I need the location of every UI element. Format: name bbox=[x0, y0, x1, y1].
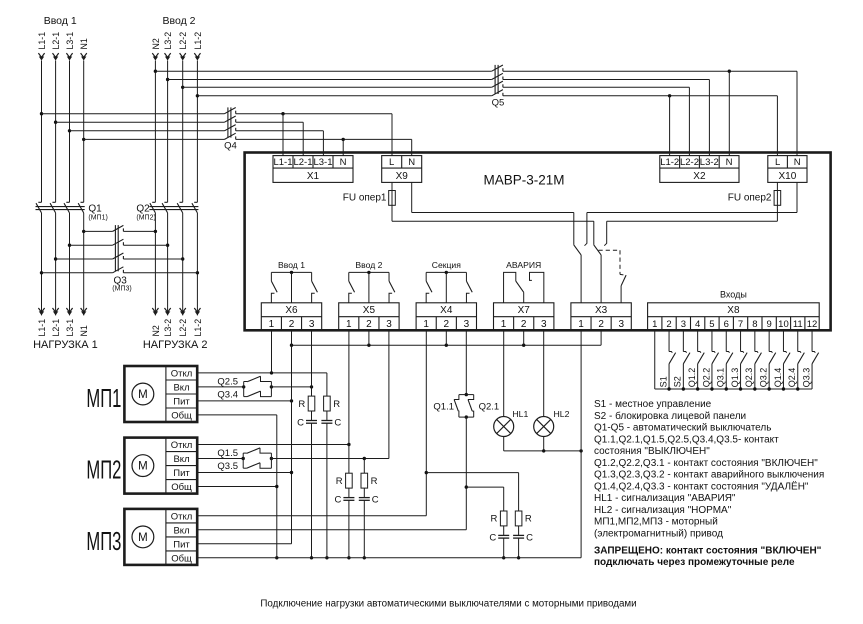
svg-text:N: N bbox=[340, 157, 347, 168]
svg-text:L3-1: L3-1 bbox=[65, 32, 75, 50]
svg-text:R: R bbox=[371, 476, 378, 487]
svg-text:Q1.2: Q1.2 bbox=[687, 368, 697, 388]
svg-text:S2: S2 bbox=[673, 376, 683, 387]
svg-text:Q3.4: Q3.4 bbox=[217, 390, 238, 401]
svg-text:C: C bbox=[526, 532, 533, 543]
svg-text:М: М bbox=[138, 461, 148, 473]
svg-text:FU опер1: FU опер1 bbox=[343, 193, 387, 204]
svg-text:МАВР-3-21М: МАВР-3-21М bbox=[483, 173, 564, 188]
svg-text:C: C bbox=[489, 532, 496, 543]
svg-text:R: R bbox=[491, 514, 498, 525]
svg-text:L2-1: L2-1 bbox=[51, 319, 61, 337]
svg-text:ЗАПРЕЩЕНО: контакт состояния ": ЗАПРЕЩЕНО: контакт состояния "ВКЛЮЧЕН" bbox=[594, 545, 822, 556]
svg-text:Входы: Входы bbox=[720, 289, 747, 299]
svg-text:C: C bbox=[335, 495, 342, 506]
svg-text:HL2 - сигнализация "НОРМА": HL2 - сигнализация "НОРМА" bbox=[594, 505, 732, 516]
svg-text:Q3.5: Q3.5 bbox=[217, 461, 238, 472]
svg-text:Q2.1: Q2.1 bbox=[479, 401, 500, 412]
svg-text:МП1: МП1 bbox=[86, 383, 121, 413]
svg-text:Секция: Секция bbox=[432, 260, 461, 270]
svg-text:N: N bbox=[794, 157, 801, 168]
svg-text:L3-2: L3-2 bbox=[700, 157, 719, 168]
svg-text:Пит: Пит bbox=[173, 468, 190, 479]
svg-text:Q1.1,Q2.1,Q1.5,Q2.5,Q3.4,Q3.5-: Q1.1,Q2.1,Q1.5,Q2.5,Q3.4,Q3.5- контакт bbox=[594, 434, 779, 445]
svg-text:состояния "ВЫКЛЮЧЕН": состояния "ВЫКЛЮЧЕН" bbox=[594, 446, 710, 457]
svg-text:X7: X7 bbox=[518, 305, 531, 316]
svg-text:1: 1 bbox=[578, 319, 584, 330]
svg-text:L3-1: L3-1 bbox=[65, 319, 75, 337]
svg-text:подключать через промежуточные: подключать через промежуточные реле bbox=[594, 557, 795, 568]
svg-text:HL1: HL1 bbox=[512, 409, 528, 419]
svg-text:N: N bbox=[408, 157, 415, 168]
svg-text:R: R bbox=[336, 476, 343, 487]
svg-text:12: 12 bbox=[807, 319, 818, 330]
svg-text:1: 1 bbox=[652, 319, 657, 330]
svg-text:3: 3 bbox=[386, 319, 392, 330]
svg-text:X2: X2 bbox=[693, 171, 706, 182]
svg-text:L1-1: L1-1 bbox=[37, 32, 47, 50]
svg-text:L3-2: L3-2 bbox=[163, 32, 173, 50]
svg-text:3: 3 bbox=[464, 319, 470, 330]
svg-text:Вкл: Вкл bbox=[173, 454, 189, 465]
svg-text:Ввод 2: Ввод 2 bbox=[163, 15, 196, 27]
svg-text:C: C bbox=[334, 417, 341, 428]
svg-text:HL2: HL2 bbox=[554, 409, 570, 419]
svg-text:НАГРУЗКА 1: НАГРУЗКА 1 bbox=[33, 339, 98, 351]
svg-text:X3: X3 bbox=[595, 305, 608, 316]
svg-text:Ввод 1: Ввод 1 bbox=[44, 15, 77, 27]
svg-text:Общ: Общ bbox=[171, 553, 192, 564]
svg-text:8: 8 bbox=[752, 319, 757, 330]
svg-text:X10: X10 bbox=[779, 171, 797, 182]
svg-text:2: 2 bbox=[444, 319, 450, 330]
svg-text:Общ: Общ bbox=[171, 482, 192, 493]
svg-text:X4: X4 bbox=[440, 305, 453, 316]
svg-text:М: М bbox=[138, 389, 148, 401]
svg-text:L: L bbox=[775, 157, 780, 168]
svg-text:Q1-Q5 - автоматический выключа: Q1-Q5 - автоматический выключатель bbox=[594, 423, 771, 434]
svg-text:N1: N1 bbox=[79, 38, 89, 49]
svg-text:Q2.4: Q2.4 bbox=[787, 368, 797, 388]
svg-text:6: 6 bbox=[724, 319, 729, 330]
svg-text:N2: N2 bbox=[151, 325, 161, 336]
svg-text:НАГРУЗКА 2: НАГРУЗКА 2 bbox=[143, 339, 208, 351]
svg-text:Ввод 1: Ввод 1 bbox=[278, 260, 305, 270]
svg-text:L1-2: L1-2 bbox=[660, 157, 679, 168]
svg-text:Откл: Откл bbox=[171, 368, 193, 379]
svg-text:Ввод 2: Ввод 2 bbox=[355, 260, 382, 270]
svg-text:L3-2: L3-2 bbox=[163, 319, 173, 337]
svg-text:3: 3 bbox=[681, 319, 686, 330]
svg-text:S1 - местное управление: S1 - местное управление bbox=[594, 399, 712, 410]
svg-text:Q1.4: Q1.4 bbox=[773, 368, 783, 388]
svg-text:Q3.2: Q3.2 bbox=[759, 368, 769, 388]
svg-text:3: 3 bbox=[618, 319, 624, 330]
svg-text:S1: S1 bbox=[658, 376, 668, 387]
svg-text:Откл: Откл bbox=[171, 440, 193, 451]
svg-text:1: 1 bbox=[346, 319, 352, 330]
svg-text:Q1.5: Q1.5 bbox=[217, 448, 238, 459]
svg-text:МП1,МП2,МП3 - моторный: МП1,МП2,МП3 - моторный bbox=[594, 517, 718, 528]
svg-text:МП2: МП2 bbox=[86, 455, 121, 485]
svg-text:7: 7 bbox=[738, 319, 743, 330]
svg-text:N2: N2 bbox=[151, 38, 161, 49]
svg-text:L2-1: L2-1 bbox=[51, 32, 61, 50]
svg-text:L1-1: L1-1 bbox=[273, 157, 292, 168]
svg-text:Подключение нагрузки автоматич: Подключение нагрузки автоматическими вык… bbox=[260, 599, 636, 610]
svg-text:1: 1 bbox=[269, 319, 275, 330]
svg-text:Q1.4,Q2.4,Q3.3 - контакт состо: Q1.4,Q2.4,Q3.3 - контакт состояния "УДАЛ… bbox=[594, 480, 809, 492]
svg-text:3: 3 bbox=[541, 319, 547, 330]
svg-text:FU опер2: FU опер2 bbox=[728, 193, 772, 204]
svg-text:Общ: Общ bbox=[171, 410, 192, 421]
svg-text:1: 1 bbox=[423, 319, 429, 330]
svg-text:N: N bbox=[726, 157, 733, 168]
svg-text:Q2.2: Q2.2 bbox=[701, 368, 711, 388]
svg-text:L1-1: L1-1 bbox=[37, 319, 47, 337]
svg-text:HL1 - сигнализация "АВАРИЯ": HL1 - сигнализация "АВАРИЯ" bbox=[594, 493, 736, 504]
svg-text:Q1.3: Q1.3 bbox=[730, 368, 740, 388]
svg-text:(МП1): (МП1) bbox=[88, 214, 107, 221]
svg-text:Q1.3,Q2.3,Q3.2 - контакт авари: Q1.3,Q2.3,Q3.2 - контакт аварийного выкл… bbox=[594, 470, 824, 481]
svg-text:2: 2 bbox=[521, 319, 527, 330]
svg-text:Q1.1: Q1.1 bbox=[433, 401, 454, 412]
svg-text:11: 11 bbox=[793, 319, 803, 330]
svg-text:R: R bbox=[298, 399, 305, 410]
svg-text:L3-1: L3-1 bbox=[313, 157, 332, 168]
svg-text:2: 2 bbox=[666, 319, 671, 330]
svg-text:R: R bbox=[333, 399, 340, 410]
svg-text:Q2.5: Q2.5 bbox=[217, 376, 238, 387]
svg-text:М: М bbox=[138, 532, 148, 544]
svg-text:L1-2: L1-2 bbox=[193, 32, 203, 50]
svg-text:Q3.3: Q3.3 bbox=[801, 368, 811, 388]
svg-text:3: 3 bbox=[309, 319, 315, 330]
svg-text:4: 4 bbox=[695, 319, 700, 330]
svg-text:Q5: Q5 bbox=[492, 98, 505, 109]
svg-text:(электромагнитный) привод: (электромагнитный) привод bbox=[594, 528, 723, 539]
svg-text:МП3: МП3 bbox=[86, 526, 121, 556]
svg-text:2: 2 bbox=[366, 319, 372, 330]
svg-text:X9: X9 bbox=[396, 171, 409, 182]
svg-text:АВАРИЯ: АВАРИЯ bbox=[506, 260, 541, 270]
svg-text:9: 9 bbox=[767, 319, 772, 330]
svg-text:10: 10 bbox=[778, 319, 789, 330]
svg-text:R: R bbox=[525, 514, 532, 525]
svg-text:X8: X8 bbox=[727, 305, 740, 316]
svg-text:(МП3): (МП3) bbox=[112, 286, 131, 293]
svg-text:Вкл: Вкл bbox=[173, 382, 189, 393]
svg-text:Q4: Q4 bbox=[224, 140, 237, 151]
svg-text:Q2.3: Q2.3 bbox=[744, 368, 754, 388]
svg-text:L2-2: L2-2 bbox=[178, 319, 188, 337]
svg-text:Q3.1: Q3.1 bbox=[716, 368, 726, 388]
svg-text:L2-2: L2-2 bbox=[178, 32, 188, 50]
svg-text:C: C bbox=[372, 495, 379, 506]
svg-text:2: 2 bbox=[598, 319, 604, 330]
svg-text:Q1.2,Q2.2,Q3.1 - контакт состо: Q1.2,Q2.2,Q3.1 - контакт состояния "ВКЛЮ… bbox=[594, 458, 818, 469]
svg-text:L: L bbox=[389, 157, 394, 168]
svg-text:Пит: Пит bbox=[173, 539, 190, 550]
svg-text:Q2: Q2 bbox=[136, 204, 150, 215]
svg-text:5: 5 bbox=[709, 319, 714, 330]
svg-text:X1: X1 bbox=[307, 171, 320, 182]
svg-text:X6: X6 bbox=[285, 305, 298, 316]
svg-text:Вкл: Вкл bbox=[173, 525, 189, 536]
svg-text:L2-2: L2-2 bbox=[680, 157, 699, 168]
svg-text:S2 - блокировка лицевой панели: S2 - блокировка лицевой панели bbox=[594, 410, 746, 422]
svg-text:C: C bbox=[297, 417, 304, 428]
svg-text:L1-2: L1-2 bbox=[193, 319, 203, 337]
svg-text:N1: N1 bbox=[79, 325, 89, 336]
svg-text:X5: X5 bbox=[363, 305, 376, 316]
svg-text:2: 2 bbox=[289, 319, 295, 330]
svg-text:Q1: Q1 bbox=[88, 204, 102, 215]
svg-text:Пит: Пит bbox=[173, 396, 190, 407]
svg-text:Откл: Откл bbox=[171, 511, 193, 522]
svg-text:(МП2): (МП2) bbox=[136, 214, 155, 221]
svg-text:1: 1 bbox=[501, 319, 507, 330]
svg-text:L2-1: L2-1 bbox=[293, 157, 312, 168]
